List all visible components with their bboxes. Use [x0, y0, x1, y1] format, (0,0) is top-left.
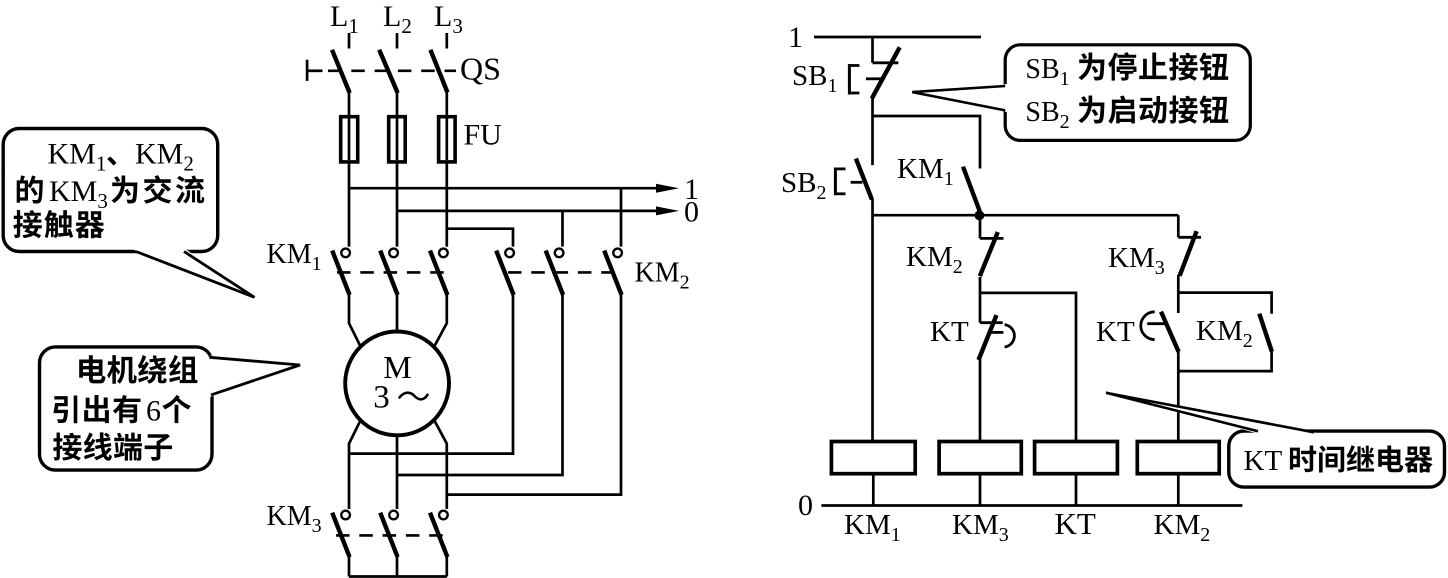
wire	[348, 245, 351, 248]
wire	[512, 293, 515, 296]
bubble text line 3	[13, 210, 42, 238]
contact terminal circle	[389, 249, 398, 258]
motor label tilde	[400, 393, 428, 400]
contact terminal circle	[341, 511, 350, 520]
coil KM1	[831, 442, 915, 474]
contactor KM1 dashed link	[337, 271, 450, 274]
wire branch to coil KT	[980, 293, 1076, 442]
contact blade	[604, 251, 621, 295]
wire	[445, 557, 448, 577]
wire delta link B	[397, 295, 563, 475]
svg-text:FU: FU	[464, 119, 503, 152]
wire	[396, 92, 399, 118]
svg-text:6: 6	[146, 395, 161, 428]
wire branch bus1 to KM2 third pole	[620, 188, 623, 246]
wire bus 0 with arrow	[397, 210, 666, 213]
contact blade	[380, 251, 397, 295]
contact terminal circle	[555, 249, 564, 258]
wire rail 1	[814, 36, 981, 39]
callout bubble: SB1 stop button SB2 start button	[1005, 45, 1250, 141]
wire	[1178, 352, 1271, 372]
wire	[349, 420, 361, 509]
bubble text line 2	[17, 176, 43, 204]
wire	[872, 474, 875, 506]
wire	[396, 557, 399, 577]
disconnect switch QS dashed link	[328, 70, 456, 73]
svg-text:1: 1	[788, 21, 803, 54]
callout bubble: KT time relay	[1229, 431, 1445, 487]
wire	[1177, 352, 1180, 372]
svg-text:KT: KT	[1244, 445, 1283, 477]
wire bus 1 with arrow	[349, 187, 666, 190]
wire	[1177, 371, 1180, 441]
contact KM3 normally-closed interlock	[1177, 215, 1180, 237]
contact KM1 normally-open holding	[963, 167, 980, 212]
wire branch to KM2 parallel contact	[1178, 293, 1271, 314]
bubble2 text line 3	[53, 433, 82, 461]
callout bubble: motor winding has 6 terminals	[40, 347, 213, 470]
svg-text:KT: KT	[1096, 316, 1135, 348]
fuse FU phase L2	[396, 118, 399, 160]
wire	[434, 420, 447, 509]
wire	[1075, 474, 1078, 506]
svg-text:KT: KT	[1055, 506, 1096, 541]
wire L3 stub	[445, 33, 448, 49]
bubble2 text line 2	[53, 395, 77, 423]
coil KT	[1035, 442, 1118, 474]
wire branch to KM2 first pole	[447, 229, 513, 247]
disconnect switch QS left terminal	[306, 60, 309, 81]
svg-text:0: 0	[798, 489, 813, 522]
wire	[620, 245, 623, 248]
wire delta link C	[447, 295, 621, 495]
wire	[348, 92, 351, 118]
contact blade	[332, 251, 349, 295]
contact terminal circle	[613, 249, 622, 258]
contact blade	[430, 251, 447, 295]
wire	[445, 245, 448, 248]
contact terminal circle	[439, 511, 448, 520]
svg-text:KT: KT	[930, 316, 969, 348]
switch QS blade phase L1	[332, 50, 350, 93]
switch QS blade phase L3	[430, 50, 447, 93]
coil KM2	[1137, 442, 1219, 474]
contact terminal circle	[341, 249, 350, 258]
svg-text:3: 3	[373, 380, 390, 416]
contact blade	[380, 513, 397, 557]
contact blade	[430, 513, 447, 557]
wire	[1177, 474, 1180, 506]
fuse FU phase L1	[348, 118, 351, 160]
wire L2 stub	[396, 33, 399, 49]
wire	[445, 507, 448, 510]
junction node dot	[975, 211, 984, 220]
wire	[1177, 275, 1180, 293]
wire star point bus	[349, 575, 447, 578]
wire horizontal bus	[873, 214, 1179, 217]
contactor KM2 dashed link	[508, 271, 618, 274]
coil KM3	[939, 442, 1021, 474]
wire branch to KM1 holding contact	[873, 116, 981, 169]
wire L1 stub	[348, 33, 351, 49]
contact terminal circle	[439, 249, 448, 258]
contact KT normally-closed delayed	[979, 293, 982, 323]
wire delta link A	[349, 295, 513, 454]
wire	[434, 295, 447, 347]
wire branch bus0 to KM2 second pole	[561, 211, 564, 247]
contact terminal circle	[389, 511, 398, 520]
wire	[871, 199, 874, 215]
bubble2 text line 1	[79, 355, 105, 383]
fuse FU phase L3	[445, 118, 448, 160]
wire	[979, 359, 982, 442]
wire	[561, 293, 564, 296]
pushbutton SB1 normally-closed	[871, 37, 874, 63]
contact KT normally-open delayed-close	[1177, 293, 1180, 313]
wire	[445, 91, 448, 118]
contact blade	[332, 513, 349, 557]
wire rail L2 down	[396, 161, 399, 247]
wire rail L1 down	[348, 161, 351, 247]
wire	[512, 245, 515, 248]
wire	[561, 245, 564, 248]
contactor KM3 dashed link	[336, 534, 452, 537]
wire	[349, 295, 361, 347]
contact blade	[496, 251, 513, 295]
wire	[396, 295, 399, 332]
callout bubble: KM1 KM2 KM3 are AC contactors	[3, 129, 218, 252]
wire	[396, 245, 399, 248]
contact blade	[546, 251, 563, 295]
contact KM2 normally-closed interlock	[979, 215, 982, 238]
pushbutton SB2 normally-open	[856, 159, 872, 200]
wire	[979, 474, 982, 506]
wire	[348, 557, 351, 577]
wire rail 0	[821, 504, 1242, 507]
wire rail L3 down	[445, 161, 448, 247]
wire	[396, 435, 399, 509]
wire	[396, 507, 399, 510]
wire	[979, 277, 982, 293]
wire SB branch down to coil KM1	[871, 215, 874, 441]
wire	[348, 507, 351, 510]
svg-text:0: 0	[684, 196, 699, 229]
wire	[620, 293, 623, 296]
svg-text:QS: QS	[460, 51, 501, 87]
contact KM2 normally-open parallel	[1259, 314, 1272, 352]
wire	[871, 98, 874, 165]
wire	[445, 293, 448, 296]
contact terminal circle	[505, 249, 514, 258]
wire	[396, 293, 399, 296]
motor M 3-phase circle	[345, 332, 449, 436]
switch QS blade phase L2	[379, 50, 398, 93]
wire	[348, 293, 351, 296]
